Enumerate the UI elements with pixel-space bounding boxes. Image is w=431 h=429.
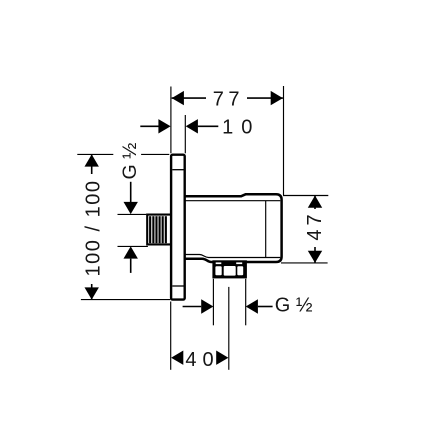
- dimension 47: [304, 196, 326, 263]
- hex nut: [212, 260, 247, 278]
- threaded inlet G1/2: [147, 215, 170, 245]
- inlet G1/2 label: [119, 143, 141, 273]
- 100/100 ticks: [77, 153, 113, 155]
- inlet ticks: [118, 213, 147, 215]
- svg-text:47: 47: [304, 210, 326, 240]
- plate chamfer lines: [172, 169, 183, 171]
- body bottom chamfer line: [185, 255, 281, 258]
- dimension 100/100: [81, 154, 104, 299]
- dimension 10: [140, 117, 260, 139]
- body outline: [185, 194, 282, 262]
- svg-text:10: 10: [222, 117, 260, 139]
- outlet G1/2 dimension: [183, 295, 313, 317]
- dimension 77: [172, 87, 283, 110]
- escutcheon plate: [171, 155, 185, 300]
- body front edge line: [265, 201, 267, 258]
- dimension 40: [171, 349, 228, 371]
- extension lines: [77, 86, 328, 370]
- svg-text:G ½: G ½: [119, 143, 141, 180]
- svg-text:40: 40: [185, 349, 219, 371]
- svg-text:G ½: G ½: [275, 295, 313, 317]
- svg-text:77: 77: [213, 88, 244, 110]
- 47 ticks: [283, 195, 328, 197]
- body top chamfer line: [185, 200, 281, 202]
- svg-text:100 / 100: 100 / 100: [82, 180, 104, 277]
